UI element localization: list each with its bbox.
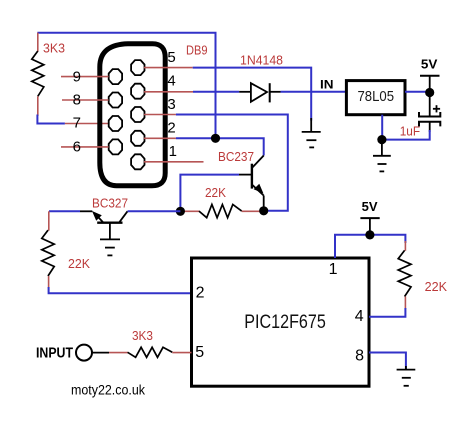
ground below 78L05 <box>373 140 391 172</box>
svg-text:4: 4 <box>167 72 175 89</box>
svg-text:4: 4 <box>355 308 364 325</box>
svg-text:3K3: 3K3 <box>132 328 153 343</box>
DB9 pin 9 circle <box>109 69 122 84</box>
IC U1 PIC12F675 box <box>192 258 370 386</box>
svg-text:1: 1 <box>169 143 177 160</box>
DB9 pin 2 circle <box>131 131 144 146</box>
DB9 pin 8 stub <box>62 99 109 101</box>
svg-text:1uF: 1uF <box>400 124 420 139</box>
DB9 pin 5 circle <box>131 60 144 75</box>
svg-text:22K: 22K <box>205 185 226 200</box>
svg-text:PIC12F675: PIC12F675 <box>244 312 325 333</box>
wire pin5 to ground <box>193 68 312 121</box>
node dot at 5V/cap junction <box>425 88 434 97</box>
svg-text:BC327: BC327 <box>92 196 128 211</box>
DB9 pin 9 stub <box>61 76 109 78</box>
DB9 pin 2 stub <box>144 137 176 139</box>
transistor Q2 BC327 (PNP) <box>80 211 128 239</box>
wire 78L05 OUT to 5V node <box>405 91 430 93</box>
svg-text:2: 2 <box>167 119 175 136</box>
node dot BC237 emitter junction <box>259 206 268 215</box>
wire diode to 78L05 IN <box>281 91 347 93</box>
svg-text:22K: 22K <box>68 256 90 271</box>
wire 3K3 bottom to DB9 pin7 <box>37 115 108 124</box>
svg-text:IN: IN <box>320 77 334 91</box>
svg-text:5: 5 <box>167 49 175 66</box>
wire pin4 to diode <box>193 91 239 93</box>
diode D1 1N4148 <box>239 83 280 102</box>
wire PIC pin8 to ground <box>369 353 406 370</box>
svg-text:9: 9 <box>73 69 81 86</box>
svg-text:8: 8 <box>73 92 81 109</box>
resistor R5 22K (vertical right) <box>398 241 411 309</box>
DB9 pin 8 circle <box>109 93 122 108</box>
svg-text:7: 7 <box>73 115 81 132</box>
wire cap bottom to ground node <box>382 130 430 140</box>
power symbol 5V (top right) <box>420 76 440 93</box>
svg-text:moty22.co.uk: moty22.co.uk <box>71 382 145 397</box>
regulator U2 78L05 box <box>346 81 405 115</box>
connector J1 DB9 outline <box>100 44 165 186</box>
DB9 pin 4 stub <box>144 91 193 93</box>
resistor R2 3K3 (horizontal bottom) <box>128 347 192 357</box>
wire from 3K3 top to DB9 pin2 node <box>37 33 215 139</box>
svg-text:5V: 5V <box>362 200 379 214</box>
DB9 pin 3 circle <box>131 107 144 122</box>
ground below IN node <box>302 118 321 147</box>
node dot pin2 junction <box>211 134 220 143</box>
wire input terminal to 3K3 <box>92 352 128 354</box>
input terminal circle <box>76 345 92 361</box>
DB9 pin 3 stub <box>144 114 176 116</box>
wire pin2 to BC237 collector <box>176 138 264 155</box>
svg-text:3K3: 3K3 <box>43 41 65 56</box>
svg-text:3: 3 <box>167 96 175 113</box>
transistor Q1 BC237 (NPN) <box>239 156 264 211</box>
svg-text:78L05: 78L05 <box>358 88 395 105</box>
wire BC327 emitter left <box>49 210 80 212</box>
wire pin3 to BC237 emitter node <box>176 115 288 211</box>
DB9 pin 7 circle <box>109 116 122 131</box>
node dot 5V rail <box>365 230 374 239</box>
DB9 pin 1 stub <box>144 161 204 163</box>
wire BC237 base <box>180 175 239 212</box>
DB9 pin 4 circle <box>131 84 144 99</box>
svg-text:6: 6 <box>73 139 81 156</box>
svg-text:INPUT: INPUT <box>36 345 73 362</box>
capacitor C1 1uF <box>419 93 440 133</box>
svg-text:8: 8 <box>355 347 364 364</box>
svg-text:5V: 5V <box>421 58 438 72</box>
resistor R3 22K (horizontal mid) <box>180 205 263 218</box>
DB9 pin 6 circle <box>109 139 122 154</box>
svg-text:DB9: DB9 <box>186 43 208 58</box>
power symbol 5V (above PIC) <box>360 218 379 235</box>
wire left 22K to PIC pin2 <box>49 287 192 293</box>
resistor R1 3K3 (top-left vertical) <box>32 33 44 116</box>
wire BC327 collector to junction <box>128 210 181 212</box>
svg-text:1N4148: 1N4148 <box>240 52 283 67</box>
node dot below 78L05 <box>377 135 386 144</box>
DB9 pin 1 circle <box>131 154 144 169</box>
node dot BC327 collector junction <box>176 207 185 216</box>
svg-text:1: 1 <box>329 261 338 278</box>
wire 5V rail to PIC pin1 and right 22K <box>335 235 405 258</box>
ground at PIC pin8 <box>397 366 416 386</box>
svg-text:5: 5 <box>195 344 204 361</box>
wire right 22K to PIC pin4 <box>369 308 405 317</box>
ground below BC327 base <box>100 239 120 255</box>
wire 78L05 GND down <box>381 115 383 140</box>
resistor R4 22K (vertical left) <box>42 211 54 288</box>
svg-text:BC237: BC237 <box>218 149 254 164</box>
svg-text:22K: 22K <box>425 279 448 294</box>
svg-text:2: 2 <box>196 285 205 302</box>
DB9 pin 6 stub <box>61 146 109 148</box>
DB9 pin 5 stub <box>144 67 193 69</box>
